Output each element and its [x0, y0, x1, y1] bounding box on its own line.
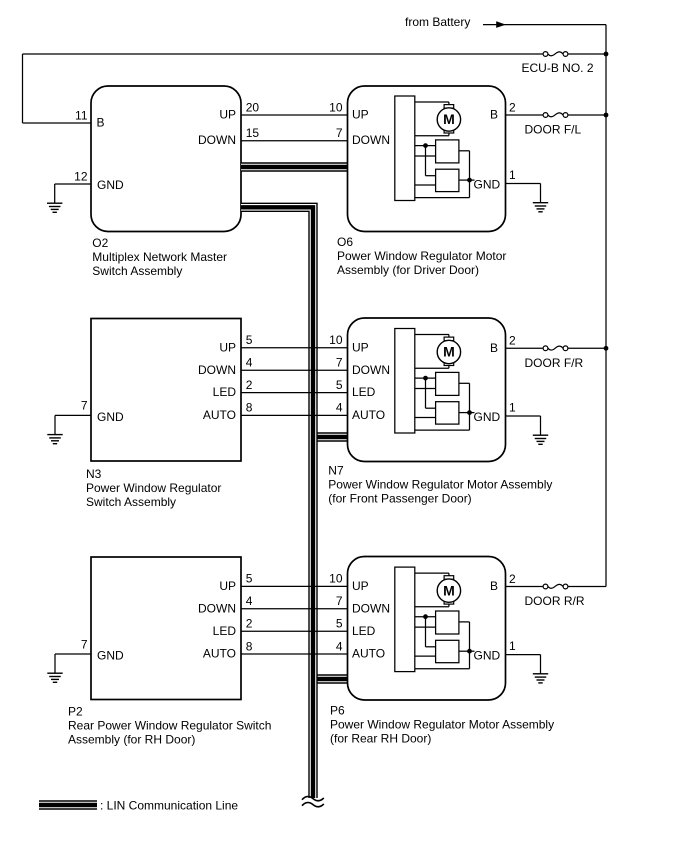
svg-text:2: 2 [246, 617, 253, 631]
LIN communication line O2 to O6 [241, 162, 348, 171]
junction node [423, 614, 428, 619]
pin labels UP row3 [219, 572, 342, 593]
label P2 [68, 705, 271, 747]
pin labels DOWN row2 [198, 356, 343, 377]
LIN stub to N7 [313, 432, 349, 441]
svg-text:LED: LED [213, 385, 237, 399]
svg-text:Power Window Regulator: Power Window Regulator [86, 481, 221, 495]
LIN stub to P6 [313, 674, 349, 683]
O6 pin labels [352, 108, 390, 148]
svg-text:1: 1 [509, 639, 516, 653]
wire N3 UP to N7 [241, 347, 349, 349]
svg-text:LED: LED [213, 624, 237, 638]
N7 pin B wire to DOOR F/R fuse [490, 334, 606, 355]
fuse DOOR R/R [525, 584, 585, 608]
legend text [100, 799, 238, 813]
svg-text:B: B [490, 579, 498, 593]
wire bottom return [415, 197, 470, 199]
wire battery feed to ECU-B fuse [23, 53, 607, 55]
svg-text:2: 2 [246, 378, 253, 392]
wire bottom return [415, 429, 470, 431]
label N3 [86, 467, 221, 509]
wire to motor bottom [415, 604, 449, 607]
node battery/ECU-B junction [604, 52, 609, 57]
wire P2 UP to P6 [241, 585, 349, 587]
wire N3 DOWN to N7 [241, 369, 349, 371]
svg-text:DOWN: DOWN [198, 363, 236, 377]
relay box 1 [436, 372, 459, 395]
legend LIN line sample [39, 800, 97, 809]
svg-text:DOWN: DOWN [352, 133, 390, 147]
relay box 1 [436, 140, 459, 163]
ground P2 [47, 654, 62, 682]
P2 GND pin 7 [55, 637, 124, 662]
svg-text:DOWN: DOWN [198, 133, 236, 147]
svg-text:UP: UP [352, 579, 369, 593]
wire connector to relay 1 [415, 616, 436, 618]
wire O2 DOWN to O6 pin 7 [241, 140, 349, 142]
svg-text:N7: N7 [328, 464, 344, 478]
svg-text:GND: GND [474, 410, 501, 424]
wire P2 AUTO to P6 [241, 653, 349, 655]
LIN communication main bus [241, 207, 313, 798]
svg-text:4: 4 [246, 356, 253, 370]
relay box 1 [436, 611, 459, 634]
P6 pin B wire to DOOR R/R fuse [490, 572, 606, 593]
wire junction down to relay 2 [426, 146, 436, 176]
P6 pin 1 GND wire [474, 639, 541, 663]
svg-text:(for Front Passenger Door): (for Front Passenger Door) [328, 492, 471, 506]
svg-text:1: 1 [509, 400, 516, 414]
svg-text:5: 5 [246, 333, 253, 347]
junction node GND [467, 410, 472, 415]
svg-text:UP: UP [219, 579, 236, 593]
svg-text:M: M [443, 344, 455, 360]
svg-text:AUTO: AUTO [352, 408, 385, 422]
pin labels AUTO row2 [203, 401, 343, 422]
node battery/DOOR F/R [604, 346, 609, 351]
svg-text:ECU-B NO. 2: ECU-B NO. 2 [522, 61, 594, 75]
internal GND wire [459, 650, 475, 652]
wire connector to relay 1 lower [415, 155, 436, 157]
wire connector to relay 2 lower [415, 655, 436, 657]
junction node [423, 143, 428, 148]
label N7 [328, 464, 552, 506]
svg-text:Switch Assembly: Switch Assembly [86, 495, 176, 509]
internal GND wire [459, 179, 475, 181]
svg-text:AUTO: AUTO [352, 647, 385, 661]
internal GND wire [459, 412, 475, 414]
svg-text:20: 20 [246, 101, 260, 115]
svg-text:: LIN Communication Line: : LIN Communication Line [100, 799, 238, 813]
svg-text:DOWN: DOWN [198, 601, 236, 615]
pin 12 GND of O2 [55, 170, 124, 193]
svg-text:2: 2 [509, 334, 516, 348]
svg-text:GND: GND [474, 649, 501, 663]
svg-text:4: 4 [246, 594, 253, 608]
N3 GND pin 7 [55, 399, 124, 424]
svg-text:P6: P6 [330, 704, 345, 718]
svg-text:DOOR R/R: DOOR R/R [525, 594, 585, 608]
junction node GND [467, 649, 472, 654]
svg-text:1: 1 [509, 168, 516, 182]
svg-text:Multiplex Network Master: Multiplex Network Master [92, 250, 227, 264]
svg-text:DOOR F/R: DOOR F/R [525, 356, 584, 370]
svg-text:GND: GND [97, 410, 124, 424]
svg-text:(for Rear RH Door): (for Rear RH Door) [330, 732, 431, 746]
O6 pin 1 GND wire [474, 168, 541, 192]
fuse DOOR F/L [525, 113, 582, 137]
wire connector to relay 1 lower [415, 388, 436, 390]
wire relay1 to right rail [459, 622, 470, 669]
svg-text:7: 7 [336, 594, 343, 608]
svg-text:AUTO: AUTO [203, 647, 236, 661]
pin labels LED row3 [213, 617, 343, 638]
svg-text:5: 5 [246, 572, 253, 586]
wire P2 DOWN to P6 [241, 608, 349, 610]
connector strip inside P6 [395, 567, 415, 672]
wire to motor bottom [415, 133, 449, 136]
motor block P6 [348, 557, 506, 701]
svg-text:Rear Power Window Regulator Sw: Rear Power Window Regulator Switch [68, 719, 271, 733]
ground O2 [47, 184, 62, 212]
svg-text:DOWN: DOWN [352, 601, 390, 615]
connector strip inside N7 [395, 329, 415, 434]
svg-text:5: 5 [336, 617, 343, 631]
label O6 [337, 235, 506, 277]
ground P6 [533, 655, 548, 683]
wire to motor top [415, 102, 449, 105]
svg-text:11: 11 [75, 109, 88, 123]
O6 pin B wire to DOOR F/L fuse [490, 101, 606, 122]
svg-text:2: 2 [509, 101, 516, 115]
svg-text:7: 7 [336, 126, 343, 140]
wire N3 LED to N7 [241, 392, 349, 394]
wire to motor bottom [415, 365, 449, 368]
from Battery feed [405, 15, 606, 29]
svg-text:O2: O2 [92, 236, 108, 250]
svg-text:10: 10 [329, 572, 343, 586]
fuse DOOR F/R [525, 346, 584, 370]
LIN bus break squiggle [302, 797, 324, 807]
svg-text:Assembly (for Driver Door): Assembly (for Driver Door) [337, 263, 479, 277]
motor M N7 [437, 337, 460, 365]
svg-text:12: 12 [74, 170, 88, 184]
wire connector to relay 2 lower [415, 184, 436, 186]
label O2 [92, 236, 227, 278]
wire O2 UP to O6 pin 10 [241, 114, 349, 116]
motor block N7 [348, 318, 506, 462]
svg-text:10: 10 [329, 101, 343, 115]
svg-text:B: B [490, 341, 498, 355]
svg-text:GND: GND [474, 178, 501, 192]
wire junction down to relay 2 [426, 378, 436, 408]
ground N3 [47, 415, 62, 443]
svg-text:P2: P2 [68, 705, 83, 719]
P6 pin labels [352, 579, 390, 661]
svg-text:4: 4 [336, 639, 343, 653]
svg-text:B: B [97, 116, 105, 130]
relay box 2 [436, 169, 459, 191]
wire relay1 to right rail [459, 151, 470, 198]
svg-text:LED: LED [352, 624, 376, 638]
O6 pin numbers 10/7 [329, 101, 343, 141]
svg-text:Assembly (for RH Door): Assembly (for RH Door) [68, 733, 195, 747]
svg-text:M: M [443, 582, 455, 598]
N7 pin 1 GND wire [474, 400, 541, 424]
ground N7 [533, 416, 548, 444]
svg-text:8: 8 [246, 401, 253, 415]
junction node GND [467, 178, 472, 183]
motor block O6 [348, 86, 506, 232]
svg-text:15: 15 [246, 126, 260, 140]
svg-text:UP: UP [219, 108, 236, 122]
svg-text:GND: GND [97, 649, 124, 663]
pin labels AUTO row3 [203, 639, 343, 660]
wire connector to relay 1 [415, 377, 436, 379]
pin 11 label [75, 109, 104, 130]
wire to motor top [415, 573, 449, 576]
svg-text:M: M [443, 111, 455, 127]
switch block N3 [91, 319, 241, 462]
O2 pin labels UP/DOWN [198, 101, 259, 148]
relay box 2 [436, 402, 459, 424]
svg-text:UP: UP [352, 340, 369, 354]
wire connector to relay 2 lower [415, 417, 436, 419]
junction node [423, 376, 428, 381]
svg-text:7: 7 [81, 637, 88, 651]
svg-text:N3: N3 [86, 467, 102, 481]
svg-text:O6: O6 [337, 235, 353, 249]
svg-text:10: 10 [329, 333, 343, 347]
battery supply rail (right vertical) [605, 25, 607, 587]
wire junction down to relay 2 [426, 617, 436, 647]
svg-text:Power Window Regulator Motor: Power Window Regulator Motor [337, 249, 506, 263]
wire connector to relay 1 lower [415, 626, 436, 628]
svg-text:B: B [490, 108, 498, 122]
wire P2 LED to P6 [241, 630, 349, 632]
connector strip inside O6 [395, 96, 415, 201]
fuse ECU-B NO. 2 [522, 52, 594, 75]
pin labels LED row2 [213, 378, 343, 399]
wire to motor top [415, 335, 449, 338]
pin labels DOWN row3 [198, 594, 343, 615]
pin labels UP row2 [219, 333, 342, 354]
svg-text:2: 2 [509, 572, 516, 586]
svg-text:GND: GND [97, 178, 124, 192]
svg-text:4: 4 [336, 401, 343, 415]
wire bottom return [415, 668, 470, 670]
motor M O6 [437, 105, 460, 133]
wire left feed down to O2 pin 11 [23, 54, 92, 123]
wire connector to relay 1 [415, 145, 436, 147]
svg-text:DOWN: DOWN [352, 363, 390, 377]
svg-text:UP: UP [352, 108, 369, 122]
svg-text:from Battery: from Battery [405, 15, 470, 29]
svg-text:Power Window Regulator Motor A: Power Window Regulator Motor Assembly [328, 478, 552, 492]
wire N3 AUTO to N7 [241, 414, 349, 416]
ground O6 [533, 184, 548, 212]
relay box 2 [436, 640, 459, 662]
motor M P6 [437, 576, 460, 604]
N7 pin labels [352, 340, 390, 422]
svg-text:AUTO: AUTO [203, 408, 236, 422]
svg-text:Power Window Regulator Motor A: Power Window Regulator Motor Assembly [330, 718, 554, 732]
svg-text:LED: LED [352, 385, 376, 399]
switch block O2 [91, 86, 241, 232]
svg-text:DOOR F/L: DOOR F/L [525, 123, 582, 137]
svg-text:5: 5 [336, 378, 343, 392]
wire relay1 to right rail [459, 383, 470, 430]
svg-text:7: 7 [81, 399, 88, 413]
node battery/DOOR F/L [604, 113, 609, 118]
svg-text:8: 8 [246, 639, 253, 653]
svg-text:7: 7 [336, 356, 343, 370]
svg-text:UP: UP [219, 340, 236, 354]
switch block P2 [91, 557, 241, 700]
svg-text:Switch Assembly: Switch Assembly [92, 264, 182, 278]
label P6 [330, 704, 554, 746]
